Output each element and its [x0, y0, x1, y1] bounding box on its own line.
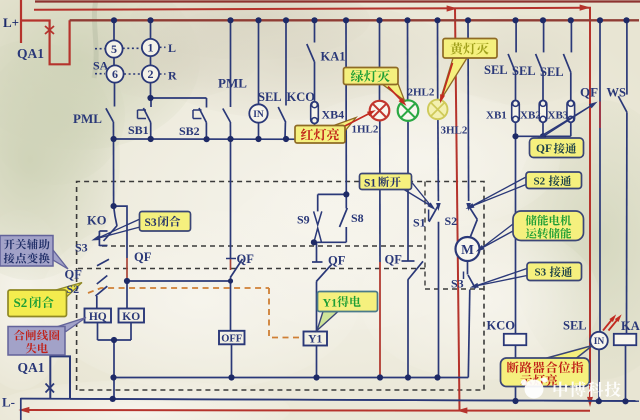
svg-text:L-: L-: [2, 395, 15, 410]
svg-text:SEL: SEL: [563, 319, 587, 333]
svg-text:S3: S3: [75, 241, 88, 255]
svg-text:2HL2: 2HL2: [408, 87, 435, 99]
svg-text:L+: L+: [3, 15, 19, 30]
svg-text:XB1: XB1: [486, 110, 507, 122]
svg-text:SEL: SEL: [484, 63, 508, 77]
svg-text:QA1: QA1: [18, 360, 45, 375]
svg-text:S9: S9: [297, 213, 310, 227]
svg-text:IN: IN: [594, 337, 605, 347]
svg-text:S3: S3: [451, 277, 464, 291]
svg-text:KO: KO: [87, 214, 107, 228]
svg-text:QF: QF: [65, 268, 83, 282]
svg-text:SB1: SB1: [128, 123, 149, 137]
svg-text:OFF: OFF: [221, 334, 242, 345]
svg-text:S2: S2: [445, 214, 458, 228]
svg-text:KA1: KA1: [321, 50, 346, 64]
svg-text:M: M: [461, 242, 474, 257]
svg-text:XB2: XB2: [520, 110, 541, 122]
svg-text:QA1: QA1: [17, 46, 44, 61]
svg-text:SA: SA: [93, 59, 109, 73]
svg-text:5: 5: [111, 42, 117, 56]
svg-text:XB4: XB4: [322, 108, 345, 122]
svg-text:PML: PML: [218, 76, 247, 91]
svg-text:QF: QF: [328, 254, 346, 268]
svg-text:KCO: KCO: [487, 319, 516, 333]
svg-text:S2: S2: [534, 176, 546, 188]
svg-text:QF: QF: [385, 253, 403, 267]
svg-text:S8: S8: [351, 211, 364, 225]
svg-text:SB2: SB2: [179, 124, 200, 138]
svg-text:6: 6: [112, 67, 118, 81]
svg-text:2: 2: [148, 67, 154, 81]
svg-text:HQ: HQ: [89, 311, 107, 323]
svg-text:S1: S1: [364, 178, 376, 190]
svg-text:S3: S3: [145, 217, 157, 229]
svg-text:IN: IN: [253, 110, 264, 120]
svg-text:QF: QF: [536, 143, 552, 155]
svg-text:R: R: [168, 69, 177, 83]
svg-text:SEL: SEL: [540, 65, 564, 79]
svg-text:3HL2: 3HL2: [441, 125, 468, 137]
svg-text:S2: S2: [67, 282, 80, 296]
svg-text:QF: QF: [237, 252, 255, 266]
svg-text:S2: S2: [14, 295, 28, 310]
svg-text:Y1: Y1: [308, 334, 322, 346]
svg-text:XB3: XB3: [548, 110, 569, 122]
svg-text:S1: S1: [413, 216, 426, 230]
svg-text:KCO: KCO: [287, 90, 316, 104]
svg-text:L: L: [168, 41, 176, 55]
svg-text:1HL2: 1HL2: [352, 124, 379, 136]
svg-text:PML: PML: [73, 111, 102, 126]
svg-text:1: 1: [148, 41, 154, 55]
svg-text:QF: QF: [580, 85, 598, 100]
svg-text:KA: KA: [621, 319, 640, 333]
svg-text:Y1: Y1: [323, 296, 338, 310]
svg-text:S3: S3: [535, 267, 547, 279]
svg-text:QF: QF: [134, 250, 152, 264]
svg-text:KO: KO: [122, 311, 140, 323]
svg-text:SEL: SEL: [258, 90, 282, 104]
svg-text:WS: WS: [607, 86, 627, 100]
svg-text:SEL: SEL: [512, 64, 536, 78]
